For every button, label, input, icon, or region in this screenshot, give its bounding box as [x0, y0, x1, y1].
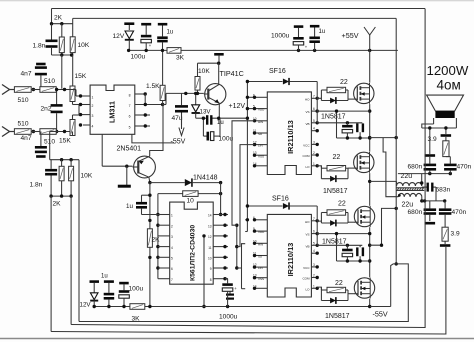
- power -55V arrow mid: [179, 113, 184, 136]
- capacitor 1u top: [157, 23, 168, 51]
- wire LM311 pin4 drop: [101, 134, 103, 166]
- svg-text:22: 22: [340, 79, 348, 86]
- svg-text:1u: 1u: [101, 274, 108, 280]
- svg-text:+55V: +55V: [342, 31, 359, 40]
- capacitor 4n7 C3: [35, 132, 47, 158]
- diode SF16 upper: [246, 78, 318, 123]
- label 100u bottom: [129, 286, 144, 293]
- power +55V arrow: [364, 27, 375, 50]
- label IR2110/13 U2: [286, 120, 295, 154]
- diode SF16 lower: [246, 202, 318, 245]
- resistor 510 Ra2: [14, 129, 31, 135]
- svg-text:4ом: 4ом: [437, 78, 461, 93]
- wire M1-M2 node: [368, 104, 371, 152]
- svg-text:LO: LO: [305, 165, 310, 169]
- power tap TIP collector: [214, 53, 224, 63]
- resistor 2K top label: [54, 15, 63, 22]
- svg-text:+12V: +12V: [229, 103, 246, 110]
- svg-text:2n2: 2n2: [41, 106, 52, 113]
- svg-text:2: 2: [313, 151, 315, 155]
- label 510 a2: [18, 121, 29, 128]
- label 1.5K: [146, 83, 160, 90]
- transistor TIP41C: [204, 63, 226, 118]
- capacitor bootstrap elec U3: [342, 245, 353, 261]
- svg-text:6: 6: [313, 107, 315, 111]
- svg-text:5: 5: [129, 126, 131, 130]
- label 1.8n: [33, 43, 46, 50]
- svg-text:-55V: -55V: [373, 310, 388, 319]
- svg-text:2: 2: [313, 274, 315, 278]
- svg-text:3: 3: [313, 140, 315, 144]
- pin 14 IR2110 U2: [253, 162, 267, 168]
- label 22u lower: [402, 202, 414, 209]
- svg-text:К561ЛП2-CD4030: К561ЛП2-CD4030: [190, 225, 197, 281]
- svg-text:1u: 1u: [126, 203, 133, 210]
- svg-text:1N5817: 1N5817: [322, 239, 347, 246]
- pin 8 CD4030: [210, 277, 228, 282]
- wire CD4030 right bus: [235, 224, 238, 270]
- wire feedback rail 2: [73, 17, 397, 19]
- label 3K top: [176, 55, 185, 62]
- wire bootstrap rail U2: [335, 109, 372, 139]
- diode 1N5817 gate g1: [330, 97, 336, 104]
- label 4om: [437, 78, 461, 93]
- svg-text:12: 12: [208, 235, 212, 239]
- svg-text:3.9: 3.9: [428, 136, 437, 143]
- label 10K 2: [81, 173, 93, 180]
- wire nodeA stepped branch: [383, 138, 398, 197]
- capacitor 1u bottom: [104, 280, 115, 306]
- svg-text:IR2110/13: IR2110/13: [286, 243, 295, 277]
- svg-text:6: 6: [253, 93, 255, 97]
- svg-text:6: 6: [129, 115, 131, 119]
- resistor 3.9 lower: [440, 227, 451, 247]
- svg-text:22: 22: [333, 154, 341, 161]
- wire VS2 row: [317, 232, 371, 235]
- svg-text:10: 10: [253, 117, 257, 121]
- svg-text:5: 5: [253, 227, 255, 231]
- pin 10 IR2110 U3: [253, 239, 267, 246]
- label +55V: [342, 31, 359, 40]
- ground 2N5401: [118, 166, 131, 188]
- transistor MOSFET Q1: [354, 83, 374, 104]
- svg-text:1: 1: [313, 284, 315, 288]
- wire M2-M3 node: [368, 173, 371, 206]
- svg-text:1.8n: 1.8n: [30, 182, 43, 189]
- wire bottom rail right: [145, 305, 370, 308]
- capacitor 680n upper: [424, 128, 437, 174]
- resistor 3.9 upper: [441, 128, 452, 157]
- wire wrap A: [79, 264, 408, 322]
- svg-text:7: 7: [313, 94, 315, 98]
- svg-text:22u: 22u: [402, 202, 414, 209]
- svg-text:12: 12: [253, 263, 257, 267]
- svg-text:14: 14: [253, 284, 257, 288]
- label 1N5817 g2: [323, 188, 348, 195]
- pin 4 IR2110 U2 right: [311, 127, 319, 133]
- svg-text:4n7: 4n7: [21, 135, 32, 142]
- wire 10 left riser: [156, 194, 159, 217]
- label 100u top: [131, 54, 146, 61]
- svg-text:LM311: LM311: [108, 101, 117, 123]
- node divider1 top: [50, 22, 73, 25]
- label 680n lower: [408, 209, 423, 216]
- label 4n7 c3: [21, 135, 32, 142]
- capacitor bootstrap elec U2: [342, 123, 353, 138]
- svg-text:3K: 3K: [176, 55, 185, 62]
- label 1N5817 g4: [325, 313, 350, 320]
- label 1200W: [427, 63, 469, 78]
- pin 9 CD4030: [210, 266, 228, 271]
- capacitor 4n7 C1: [35, 63, 47, 89]
- svg-text:6: 6: [313, 230, 315, 234]
- wire pin2 link: [78, 105, 80, 116]
- wire divider2 riser A: [50, 196, 52, 331]
- svg-text:SF16: SF16: [272, 196, 289, 203]
- pin 11 IR2110 U3: [253, 252, 267, 259]
- resistor 22 g1: [321, 87, 348, 92]
- wire gate loop g1: [317, 90, 354, 101]
- svg-text:100u: 100u: [131, 54, 146, 61]
- label 13V: [200, 109, 212, 116]
- svg-text:3: 3: [171, 235, 173, 239]
- svg-text:6: 6: [253, 216, 255, 220]
- capacitor 1000u bottom: [222, 283, 233, 306]
- svg-text:510: 510: [18, 97, 29, 104]
- transistor MOSFET Q2: [354, 152, 374, 173]
- resistor 15K R1: [70, 86, 79, 105]
- svg-text:4: 4: [313, 249, 315, 253]
- pin 4 LM311: [79, 123, 94, 128]
- label 100u emitter: [219, 136, 234, 143]
- wire HIN1 link: [232, 121, 255, 225]
- resistor 2K R-fb1: [59, 24, 64, 55]
- wire LM311 V- drop: [132, 134, 174, 143]
- svg-text:LIN: LIN: [258, 266, 263, 270]
- svg-text:2K: 2K: [152, 237, 161, 244]
- diode 1N5817 gate g3: [330, 220, 336, 227]
- svg-text:100u: 100u: [129, 286, 144, 293]
- label 3K bottom: [132, 316, 141, 323]
- wire pin row link: [142, 214, 158, 216]
- svg-text:680n: 680n: [408, 164, 423, 171]
- svg-text:1: 1: [171, 214, 173, 218]
- pin 6 IR2110 U3: [253, 216, 267, 222]
- wire wrap C: [51, 247, 446, 334]
- label 470n lower: [452, 209, 467, 216]
- label 1000u top: [271, 33, 290, 40]
- svg-text:4n7: 4n7: [21, 71, 32, 78]
- svg-text:4: 4: [313, 127, 315, 131]
- svg-text:10K: 10K: [81, 173, 93, 180]
- wire VDD2 link: [245, 231, 247, 233]
- svg-text:VB: VB: [305, 122, 309, 126]
- pin 14 CD4030: [208, 213, 228, 218]
- svg-text:2: 2: [171, 224, 173, 228]
- diode 1N5817 gate g4: [330, 297, 336, 304]
- pin 13 IR2110 U2: [253, 151, 267, 158]
- capacitor 100u bottom: [119, 282, 130, 307]
- label 22 g3: [338, 201, 346, 208]
- wire 4030 left bus: [156, 215, 159, 279]
- wire gate loop g4: [317, 287, 355, 300]
- svg-text:3: 3: [92, 114, 94, 118]
- label 1u 55V: [319, 29, 326, 35]
- pin 1 IR2110 U3 right: [305, 284, 318, 291]
- pin 13 CD4030: [208, 224, 228, 229]
- svg-text:VCC: VCC: [303, 266, 310, 270]
- svg-text:11: 11: [208, 246, 212, 250]
- pin 12 CD4030: [208, 234, 228, 239]
- wire 15K1 top to row1: [70, 90, 83, 97]
- wire divider2 riser B: [70, 196, 72, 324]
- label 1u emitter: [217, 120, 224, 126]
- label 680n upper: [408, 164, 423, 171]
- svg-text:TIP41C: TIP41C: [220, 69, 244, 78]
- label 22 g2: [333, 154, 341, 161]
- wire LIN1 link: [237, 145, 255, 247]
- speaker LS1: [422, 95, 464, 128]
- wire +12V rail: [127, 49, 167, 52]
- svg-text:5: 5: [313, 119, 315, 123]
- svg-text:1200W: 1200W: [427, 63, 469, 78]
- diode 1N5817 gate g2: [330, 175, 336, 182]
- resistor 2K 4030: [147, 229, 152, 307]
- svg-text:HO: HO: [305, 97, 310, 101]
- node divider1 bottom: [52, 53, 74, 56]
- core transformer: [396, 188, 424, 191]
- capacitor 2n2 C2: [51, 88, 63, 133]
- node in1 junction: [31, 88, 40, 91]
- svg-text:10K: 10K: [78, 42, 90, 49]
- svg-text:15K: 15K: [75, 73, 87, 80]
- svg-text:1000u: 1000u: [271, 33, 290, 40]
- capacitor 47u: [175, 93, 188, 125]
- svg-text:1.5K: 1.5K: [146, 83, 160, 90]
- pin 1 CD4030: [158, 214, 173, 218]
- svg-text:HO: HO: [305, 220, 310, 224]
- pin 7 IR2110 U3 right: [305, 217, 319, 224]
- pin 6 IR2110 U2 right: [305, 107, 318, 114]
- svg-text:VDD: VDD: [258, 230, 265, 234]
- wire wrap B: [71, 9, 425, 328]
- capacitor 680n lower: [424, 201, 437, 225]
- svg-text:COM: COM: [303, 154, 311, 158]
- resistor 510 Rb1: [40, 87, 56, 93]
- resistor 3K top: [167, 48, 181, 54]
- label 47u: [172, 115, 183, 122]
- wire pin8 to 1000u: [225, 279, 228, 284]
- wire divider1 to input row1: [61, 55, 63, 89]
- svg-text:22: 22: [338, 201, 346, 208]
- pin 7 IR2110 U2 right: [305, 94, 319, 101]
- svg-text:2: 2: [92, 104, 94, 108]
- scan bottom edge: [0, 338, 474, 340]
- pin 5 IR2110 U2: [253, 105, 267, 112]
- svg-text:1N5817: 1N5817: [321, 114, 346, 121]
- wire 2K column: [148, 183, 151, 229]
- wire M4 source to -55V: [368, 299, 391, 308]
- label SF16 upper: [269, 68, 286, 75]
- label 10: [187, 198, 195, 205]
- svg-text:1: 1: [313, 162, 315, 166]
- wire winding2 out: [420, 197, 423, 203]
- label 1u top: [167, 30, 174, 36]
- label 15K r1: [75, 73, 87, 80]
- input terminal IN+: [2, 85, 14, 95]
- svg-text:IR2110/13: IR2110/13: [286, 120, 295, 154]
- svg-text:12V: 12V: [113, 33, 125, 40]
- label 3.9 lower: [451, 231, 460, 238]
- wire bootstrap rail U3: [335, 232, 370, 263]
- wire TIP emitter row: [196, 117, 248, 120]
- transistor MOSFET Q3: [354, 206, 374, 227]
- resistor 10K R-in2: [69, 160, 74, 196]
- wire TIP top node: [198, 62, 221, 65]
- svg-text:5: 5: [171, 257, 173, 261]
- wire HIN2 link: [237, 244, 245, 268]
- wire CD4030 internal: [202, 234, 205, 308]
- resistor 22 g4: [321, 287, 348, 292]
- pin 2 LM311: [79, 103, 94, 108]
- pin 10 IR2110 U2: [253, 117, 267, 124]
- wire mid node to winding: [370, 180, 397, 182]
- svg-text:10: 10: [253, 239, 257, 243]
- op-amp LM311 body: [90, 85, 135, 134]
- label 15K r2: [59, 138, 71, 145]
- scan top edge: [0, 0, 474, 2]
- label 1000u bottom: [219, 314, 238, 321]
- capacitor 470n lower: [439, 201, 452, 227]
- svg-text:1u: 1u: [319, 29, 326, 35]
- zener 12V bottom: [90, 280, 100, 306]
- label 2K 2: [53, 201, 62, 208]
- pin 13 IR2110 U3: [253, 274, 267, 281]
- wire TIP base row: [163, 92, 204, 105]
- pin 14 IR2110 U3: [253, 284, 267, 290]
- wire winding1 out: [420, 174, 423, 186]
- capacitor bootstrap cer U2: [356, 123, 364, 138]
- resistor 10K tip: [195, 63, 200, 93]
- svg-text:683n: 683n: [436, 187, 451, 194]
- svg-text:SF16: SF16: [269, 68, 286, 75]
- wire divider2 riser C: [78, 160, 80, 322]
- svg-text:2N5401: 2N5401: [117, 146, 142, 153]
- wire upper filter row: [398, 172, 452, 175]
- pin 3 CD4030: [158, 235, 173, 239]
- label 3.9 upper: [428, 136, 437, 143]
- svg-text:7: 7: [171, 278, 173, 282]
- pin 10 CD4030: [208, 256, 228, 261]
- node divider2 top row: [50, 158, 79, 161]
- svg-text:2K: 2K: [53, 201, 62, 208]
- svg-text:470n: 470n: [452, 209, 467, 216]
- svg-text:7: 7: [129, 104, 131, 108]
- svg-text:3: 3: [313, 263, 315, 267]
- svg-text:14: 14: [253, 162, 257, 166]
- pin 7 LM311: [129, 103, 165, 108]
- svg-text:LIN: LIN: [258, 144, 263, 148]
- svg-text:13: 13: [208, 224, 212, 228]
- label 12V bottom: [80, 302, 92, 309]
- wire row2 down to divider2: [50, 132, 57, 160]
- wire feedback rail 1 (top): [52, 8, 426, 10]
- svg-text:15K: 15K: [59, 138, 71, 145]
- svg-text:470n: 470n: [457, 164, 472, 171]
- resistor 3K bottom: [130, 304, 145, 310]
- label IR2110/13 U3: [286, 243, 295, 277]
- pin 5 CD4030: [158, 257, 173, 261]
- svg-text:10: 10: [187, 198, 195, 205]
- capacitor 100u emitter: [202, 117, 220, 141]
- label 1N5817 g1: [321, 114, 346, 121]
- label 12V: [113, 33, 125, 40]
- svg-text:8: 8: [210, 278, 212, 282]
- svg-text:11: 11: [253, 129, 257, 133]
- svg-text:VSS: VSS: [258, 154, 264, 158]
- pin 11 IR2110 U2: [253, 129, 267, 136]
- pin 3 IR2110 U3 right: [303, 263, 319, 270]
- capacitor 1u 4030: [136, 195, 150, 214]
- label 1.8n 2: [30, 182, 43, 189]
- wire M3-M4 node: [368, 227, 371, 277]
- wire row2 right: [56, 130, 72, 133]
- capacitor decoupling logic: [226, 289, 234, 300]
- label +12V: [229, 103, 246, 110]
- svg-text:1: 1: [92, 96, 94, 100]
- label 22u upper: [401, 173, 413, 180]
- svg-text:HIN: HIN: [258, 120, 263, 124]
- svg-text:4: 4: [92, 125, 94, 129]
- capacitor 1.8n C-fb2: [45, 160, 57, 196]
- input terminal IN-: [2, 127, 14, 137]
- wire row1 to 15K: [56, 88, 70, 91]
- wire speaker row: [422, 126, 457, 129]
- svg-text:9: 9: [210, 267, 212, 271]
- svg-text:6: 6: [171, 267, 173, 271]
- svg-text:2K: 2K: [54, 15, 63, 22]
- pin 1 LM311: [79, 94, 94, 99]
- wire 10K down to 15K: [72, 55, 74, 86]
- wire VB1 row: [317, 121, 362, 124]
- svg-text:510: 510: [18, 121, 29, 128]
- wire rail2 drop to divider: [72, 18, 74, 36]
- label 1u 4030: [126, 203, 133, 210]
- capacitor bootstrap cer U3: [356, 245, 364, 261]
- svg-text:680n: 680n: [408, 209, 423, 216]
- svg-text:VS: VS: [305, 233, 309, 237]
- svg-text:1N5817: 1N5817: [325, 313, 350, 320]
- pin 3 IR2110 U2 right: [303, 140, 319, 147]
- wire lower filter row: [422, 199, 447, 202]
- wire gate loop g2: [317, 166, 354, 179]
- svg-text:10: 10: [208, 257, 212, 261]
- svg-text:VCC: VCC: [303, 144, 310, 148]
- svg-text:VB: VB: [305, 244, 309, 248]
- resistor 510 Ra1: [14, 87, 31, 93]
- label LM311: [108, 101, 117, 123]
- pin 4 IR2110 U3 right: [311, 249, 319, 255]
- svg-text:VDD: VDD: [258, 108, 265, 112]
- wire VSS2 bus: [242, 268, 246, 289]
- label 10K tip: [198, 68, 210, 75]
- pin 5 LM311: [129, 124, 150, 129]
- pin 5 IR2110 U2 right: [305, 119, 318, 126]
- label TIP41C: [220, 69, 244, 78]
- svg-text:10K: 10K: [198, 68, 210, 75]
- label 22 g4: [335, 280, 343, 287]
- capacitor 100u top: [141, 23, 152, 51]
